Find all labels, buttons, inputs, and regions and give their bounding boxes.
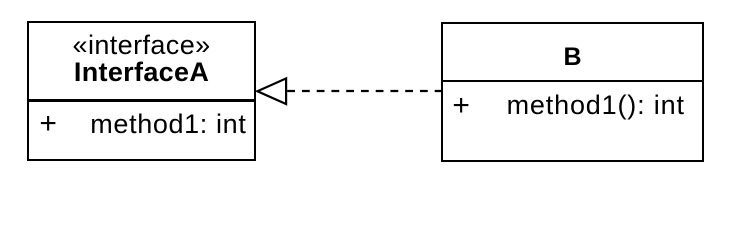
class B title compartment divider [443, 80, 702, 82]
dashed line [287, 90, 443, 92]
class InterfaceA attribute text method1: int [90, 111, 246, 138]
class InterfaceA title text «interface» / InterfaceA [29, 32, 254, 86]
class InterfaceA title compartment divider [29, 99, 254, 101]
class InterfaceA box [27, 21, 256, 161]
class B box [441, 22, 704, 162]
realization arrow from B to InterfaceA [0, 0, 732, 181]
hollow triangle arrowhead [257, 78, 286, 104]
class B operation visibility + [452, 91, 470, 121]
class B operation text method1(): int [507, 92, 685, 119]
class B title text B [443, 45, 702, 70]
class InterfaceA attribute visibility + [39, 109, 57, 139]
